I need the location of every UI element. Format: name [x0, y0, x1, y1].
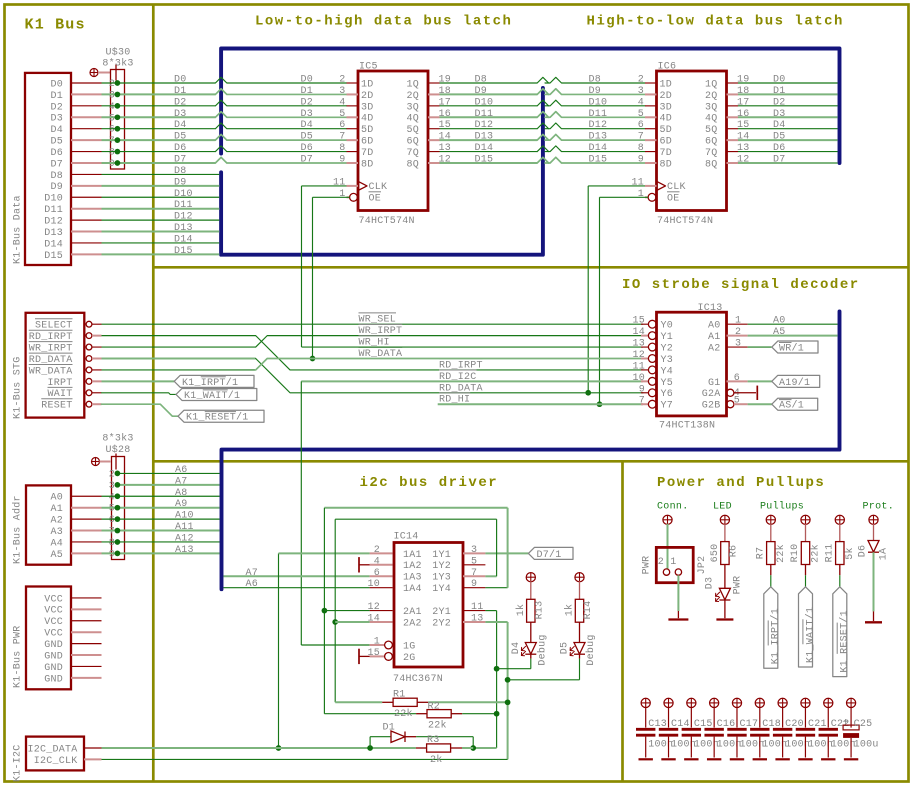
- wire RD_I2C down to IC14 1G: [301, 381, 369, 645]
- svg-text:14: 14: [737, 132, 750, 143]
- svg-text:15: 15: [632, 316, 645, 327]
- capacitor C13 100n: [636, 729, 655, 757]
- label net A0: [773, 316, 786, 327]
- svg-text:D13: D13: [44, 228, 63, 239]
- svg-text:D7/1: D7/1: [537, 549, 562, 561]
- label IC6: [658, 62, 677, 73]
- svg-text:D14: D14: [44, 239, 63, 250]
- wire SDA riser to 1A1: [279, 553, 370, 748]
- label 650 R6: [710, 544, 721, 563]
- svg-text:D11: D11: [589, 109, 608, 120]
- svg-text:IC6: IC6: [658, 62, 677, 73]
- label net D11: [174, 200, 193, 211]
- svg-text:D4: D4: [773, 120, 786, 131]
- svg-text:18: 18: [439, 86, 452, 97]
- svg-text:5: 5: [471, 556, 477, 567]
- wire D13 connector to bus: [102, 231, 220, 233]
- ground IC14 pin 1A2: [359, 557, 370, 572]
- svg-text:High-to-low data bus latch: High-to-low data bus latch: [587, 14, 844, 30]
- svg-text:G2B: G2B: [702, 401, 721, 412]
- svg-text:C25: C25: [854, 719, 873, 730]
- value 100n C15: [694, 740, 719, 751]
- svg-text:1A1: 1A1: [403, 550, 422, 561]
- wire RD_HI: [438, 403, 643, 405]
- power VCC C22: [824, 698, 833, 727]
- wire A12 to bus: [102, 541, 220, 543]
- svg-text:D8: D8: [589, 75, 602, 86]
- label K1-Bus PWR: [13, 625, 24, 688]
- bus data top loop: [221, 49, 839, 164]
- svg-text:RESET: RESET: [41, 401, 72, 412]
- label net D15: [174, 246, 193, 257]
- svg-text:1Y2: 1Y2: [432, 561, 451, 572]
- ground C22: [821, 758, 835, 760]
- junction 2A1: [322, 608, 328, 614]
- svg-text:D2: D2: [174, 97, 187, 108]
- svg-text:2: 2: [339, 75, 345, 86]
- svg-text:1A2: 1A2: [403, 561, 422, 572]
- svg-text:7: 7: [109, 136, 115, 147]
- label net A12: [175, 533, 194, 544]
- label R2: [428, 702, 441, 713]
- svg-text:2: 2: [638, 75, 644, 86]
- svg-text:8*3k3: 8*3k3: [102, 433, 133, 445]
- tag A19/1: [772, 375, 820, 388]
- power VCC C20: [778, 698, 787, 727]
- ground JP2: [668, 611, 688, 620]
- ground C18: [753, 758, 767, 760]
- IC5 left pins: [347, 83, 359, 163]
- wire D12 bus to IC6: [545, 123, 645, 129]
- power VCC symbol U$30: [90, 65, 116, 81]
- svg-text:7: 7: [339, 132, 345, 143]
- wire RD_DATA from STG: [102, 358, 644, 392]
- pin numbers U$30: [109, 79, 115, 170]
- value PWR D3: [733, 576, 744, 595]
- svg-text:VCC: VCC: [44, 594, 63, 605]
- svg-text:5: 5: [109, 113, 115, 124]
- wire D9 bus to IC6: [545, 89, 645, 95]
- svg-text:D10: D10: [44, 194, 63, 205]
- svg-text:8: 8: [638, 143, 644, 154]
- svg-text:D2: D2: [773, 97, 786, 108]
- svg-text:6: 6: [734, 373, 740, 384]
- svg-text:6D: 6D: [660, 137, 673, 148]
- tag K1_WAIT/1: [799, 587, 817, 667]
- label net D10 at IC5: [475, 97, 494, 108]
- svg-text:D9: D9: [589, 86, 602, 97]
- label U$30: [102, 47, 133, 70]
- IC14 pin names left: [403, 550, 422, 664]
- svg-text:IC5: IC5: [359, 62, 378, 73]
- svg-text:8Q: 8Q: [705, 159, 718, 170]
- IC13 left pins Y0-Y7: [641, 320, 656, 408]
- label net D13 at IC6: [589, 132, 608, 143]
- svg-text:PWR: PWR: [733, 576, 744, 595]
- svg-text:D6: D6: [174, 143, 187, 154]
- ground D3: [716, 611, 733, 620]
- label Conn.: [657, 502, 689, 513]
- value 74HCT574N IC5: [359, 216, 415, 227]
- power VCC C13: [641, 698, 650, 727]
- svg-text:IC13: IC13: [698, 303, 723, 314]
- svg-text:Y1: Y1: [661, 332, 674, 343]
- svg-text:A19/1: A19/1: [779, 377, 810, 389]
- svg-text:1A: 1A: [879, 548, 890, 561]
- svg-text:D14: D14: [174, 234, 193, 245]
- svg-text:RD_I2C: RD_I2C: [439, 372, 477, 383]
- pins K1-Bus PWR: [71, 598, 102, 678]
- svg-text:GND: GND: [44, 663, 63, 674]
- wire D4 IC6 to bus: [738, 128, 838, 130]
- led D4 Debug: [521, 622, 536, 669]
- divider power section: [621, 461, 624, 782]
- STG pin RD_DATA: [29, 353, 102, 366]
- STG pin IRPT: [47, 378, 101, 389]
- svg-text:2A2: 2A2: [403, 618, 422, 629]
- label R6: [729, 545, 740, 558]
- value 22k R10: [810, 544, 822, 563]
- svg-text:5: 5: [734, 396, 740, 407]
- resistor network U$28 8*3k3: [112, 457, 125, 560]
- pins K1-Bus Addr: [71, 496, 102, 553]
- svg-text:D11: D11: [174, 200, 193, 211]
- svg-text:6: 6: [109, 125, 115, 136]
- svg-text:9: 9: [639, 384, 645, 395]
- svg-text:i2c bus driver: i2c bus driver: [360, 475, 499, 491]
- label net D5 at IC6 output: [773, 132, 786, 143]
- op IC6 box 74HCT574N: [657, 71, 727, 211]
- label net D12 at IC6: [589, 120, 608, 131]
- svg-text:2D: 2D: [660, 91, 673, 102]
- IC13 left pin numbers: [632, 316, 645, 407]
- label IC14: [394, 532, 419, 543]
- junction SDA riser: [276, 745, 282, 751]
- resistor R7 22k: [767, 542, 775, 565]
- svg-text:D15: D15: [44, 251, 63, 262]
- svg-text:D5: D5: [560, 642, 571, 655]
- capacitor C21 100n: [796, 729, 815, 757]
- label net D12 at IC5: [475, 120, 494, 131]
- svg-text:D5: D5: [301, 132, 314, 143]
- label net RD_HI: [439, 393, 470, 406]
- svg-text:A7: A7: [246, 568, 259, 579]
- svg-text:Prot.: Prot.: [863, 502, 895, 513]
- svg-text:3: 3: [735, 339, 741, 350]
- svg-text:4: 4: [374, 556, 380, 567]
- junction D5 column: [505, 677, 511, 683]
- value 100n C13: [648, 740, 673, 751]
- svg-text:G2A: G2A: [702, 389, 721, 400]
- wire D15 IC5 to bus: [440, 157, 549, 163]
- svg-text:4: 4: [109, 492, 115, 503]
- svg-text:8: 8: [109, 538, 115, 549]
- svg-text:VCC: VCC: [44, 617, 63, 628]
- wire D11 connector to bus: [102, 208, 220, 210]
- svg-text:R6: R6: [729, 545, 740, 558]
- label U$28: [102, 433, 133, 456]
- svg-text:10: 10: [367, 579, 380, 590]
- power VCC C14: [664, 698, 673, 727]
- svg-text:1k: 1k: [515, 604, 527, 617]
- svg-text:D4: D4: [50, 125, 63, 136]
- svg-text:3D: 3D: [361, 102, 374, 113]
- svg-text:Y6: Y6: [661, 389, 674, 400]
- svg-text:D7: D7: [301, 155, 314, 166]
- svg-text:R11: R11: [824, 544, 835, 563]
- svg-text:A8: A8: [175, 488, 188, 499]
- label net A5: [773, 327, 786, 338]
- power VCC C21: [801, 698, 810, 727]
- svg-text:100n: 100n: [785, 740, 810, 751]
- label net A10: [175, 511, 194, 522]
- svg-text:7: 7: [109, 527, 115, 538]
- bus data lower loop: [221, 88, 543, 255]
- tag K1_RESET/1: [833, 587, 851, 677]
- label IC5: [359, 62, 378, 73]
- wire D8 connector to bus: [102, 173, 220, 175]
- svg-text:D15: D15: [174, 246, 193, 257]
- svg-text:A3: A3: [50, 527, 63, 538]
- capacitor C20 100n: [773, 729, 792, 757]
- wire IC5 OE to WR_DATA: [313, 197, 350, 358]
- wire 2A1 pin: [324, 610, 369, 612]
- resistor R13 1k: [527, 599, 535, 622]
- divider top section: [153, 266, 908, 269]
- svg-text:D0: D0: [773, 75, 786, 86]
- label K1-Bus STG: [13, 356, 24, 419]
- IC13 pin names Y0-Y7: [661, 321, 674, 412]
- connector K1-Bus PWR: [26, 587, 71, 690]
- svg-text:D3: D3: [174, 109, 187, 120]
- label net D8 at IC5: [475, 75, 488, 86]
- svg-text:K1_WAIT/1: K1_WAIT/1: [804, 607, 816, 663]
- power VCC C15: [687, 698, 696, 727]
- ground C14: [661, 758, 675, 760]
- svg-text:WR_DATA: WR_DATA: [359, 349, 403, 360]
- wire A13 to bus: [102, 552, 220, 554]
- wire D8 bus to IC6: [545, 77, 645, 83]
- label net A9: [175, 499, 188, 510]
- wire IC6 OE to RD_HI: [600, 197, 649, 404]
- wire A19/1: [748, 380, 772, 382]
- value 100n C22: [831, 740, 856, 751]
- svg-text:D8: D8: [174, 166, 187, 177]
- ground C20: [775, 758, 789, 760]
- op IC5 box 74HCT574N: [358, 71, 428, 211]
- svg-text:D5: D5: [50, 137, 63, 148]
- svg-text:100u: 100u: [854, 740, 879, 751]
- svg-text:3D: 3D: [660, 102, 673, 113]
- junction SDA at R3 right: [470, 745, 476, 751]
- value 100n C21: [808, 740, 833, 751]
- IC13 right pins: [727, 324, 748, 408]
- label net RD_I2C: [439, 370, 477, 383]
- svg-text:4D: 4D: [361, 114, 374, 125]
- label C18: [762, 719, 781, 730]
- svg-text:D10: D10: [589, 97, 608, 108]
- svg-text:D6: D6: [50, 148, 63, 159]
- svg-text:5D: 5D: [660, 125, 673, 136]
- svg-text:1A3: 1A3: [403, 573, 422, 584]
- label net A6: [175, 465, 188, 476]
- svg-text:D11: D11: [44, 205, 63, 216]
- label net D0 at IC6 output: [773, 75, 786, 86]
- svg-text:6Q: 6Q: [705, 137, 718, 148]
- wire A6 bus to IC14 1A4: [224, 587, 370, 589]
- svg-text:7: 7: [638, 132, 644, 143]
- label LED: [713, 502, 732, 513]
- svg-text:R14: R14: [583, 601, 594, 620]
- STG pin SELECT: [35, 319, 102, 332]
- svg-text:D15: D15: [475, 155, 494, 166]
- svg-text:Pullups: Pullups: [760, 501, 804, 513]
- svg-text:17: 17: [439, 97, 452, 108]
- svg-text:D11: D11: [475, 109, 494, 120]
- title High-to-low data bus latch: [587, 14, 844, 30]
- power VCC D6: [869, 515, 878, 540]
- svg-text:1Y4: 1Y4: [432, 584, 451, 595]
- svg-text:6D: 6D: [361, 137, 374, 148]
- svg-text:A11: A11: [175, 522, 194, 533]
- svg-text:A0: A0: [708, 321, 721, 332]
- label net WR_SEL: [359, 313, 397, 326]
- label R3: [427, 735, 440, 746]
- label net D14: [174, 234, 193, 245]
- value 100n C14: [671, 740, 696, 751]
- label C14: [671, 719, 690, 730]
- svg-text:D3: D3: [301, 109, 314, 120]
- svg-text:74HCT138N: 74HCT138N: [659, 421, 715, 432]
- svg-text:6: 6: [339, 120, 345, 131]
- IC14 right pin numbers: [471, 545, 484, 625]
- svg-text:100n: 100n: [831, 740, 856, 751]
- svg-text:D7: D7: [174, 155, 187, 166]
- svg-text:K1-Bus Addr: K1-Bus Addr: [12, 495, 24, 564]
- label net D3 at IC6 output: [773, 109, 786, 120]
- svg-text:2: 2: [109, 469, 115, 480]
- label Prot.: [863, 502, 895, 513]
- svg-text:650: 650: [710, 544, 721, 563]
- tag K1_IRPT/1: [764, 587, 782, 668]
- wire WR_DATA from STG: [102, 358, 644, 369]
- label net D2 at IC6 output: [773, 97, 786, 108]
- svg-text:D6: D6: [773, 143, 786, 154]
- svg-text:1Y1: 1Y1: [432, 550, 451, 561]
- svg-text:A1: A1: [708, 332, 721, 343]
- value 22k R2: [428, 720, 447, 732]
- value Debug D5: [585, 634, 597, 665]
- junction IC5 OE WR_DATA: [310, 356, 316, 362]
- value 1A D6: [879, 548, 890, 561]
- label net D4 at IC6 output: [773, 120, 786, 131]
- wire D15 connector to bus: [102, 253, 220, 255]
- IC5 pin CLK: [333, 177, 387, 193]
- svg-text:R10: R10: [790, 544, 801, 563]
- svg-text:1: 1: [374, 637, 380, 648]
- label 1k R14: [564, 604, 576, 617]
- svg-text:100n: 100n: [739, 740, 764, 751]
- svg-text:1D: 1D: [361, 79, 374, 90]
- svg-text:8D: 8D: [660, 159, 673, 170]
- label net D9: [174, 177, 187, 188]
- svg-text:Low-to-high data bus latch: Low-to-high data bus latch: [255, 14, 512, 30]
- svg-text:100n: 100n: [671, 740, 696, 751]
- svg-text:WR/1: WR/1: [779, 342, 804, 354]
- svg-text:D14: D14: [475, 143, 494, 154]
- wire IC5 CLK to WR_HI: [302, 186, 347, 347]
- wire WR_IRPT from STG: [102, 336, 644, 347]
- svg-text:15: 15: [367, 648, 380, 659]
- label R14: [583, 601, 594, 620]
- power VCC symbol U$28: [92, 454, 117, 470]
- label net A8: [175, 488, 188, 499]
- label net D7: [174, 155, 313, 166]
- svg-text:D3: D3: [705, 577, 716, 590]
- label K1-I2C: [13, 744, 24, 782]
- svg-text:19: 19: [737, 75, 750, 86]
- svg-text:12: 12: [632, 350, 645, 361]
- wire A11 to bus: [102, 530, 220, 532]
- wire D11 IC5 to bus: [440, 112, 549, 118]
- IC14 left pin numbers: [367, 545, 380, 659]
- svg-text:19: 19: [439, 75, 452, 86]
- capacitor C15 100n: [682, 729, 701, 757]
- IC6 pin CLK: [631, 177, 685, 193]
- wire WR_HI: [302, 346, 644, 348]
- svg-text:D4: D4: [511, 642, 522, 655]
- STG pin WR_DATA: [29, 365, 102, 378]
- svg-text:7D: 7D: [660, 148, 673, 159]
- value 22k R1: [394, 708, 413, 720]
- value 100n C16: [717, 740, 742, 751]
- resistor R10 22k: [801, 542, 809, 565]
- svg-text:1G: 1G: [403, 641, 416, 652]
- svg-text:74HCT574N: 74HCT574N: [657, 216, 713, 227]
- svg-text:D5: D5: [174, 132, 187, 143]
- svg-text:K1_WAIT/1: K1_WAIT/1: [184, 390, 240, 402]
- svg-text:D1: D1: [773, 86, 786, 97]
- svg-text:1: 1: [735, 316, 741, 327]
- svg-text:13: 13: [737, 143, 750, 154]
- svg-text:13: 13: [439, 143, 452, 154]
- svg-text:U$28: U$28: [105, 444, 130, 456]
- wire AS/1: [748, 403, 772, 405]
- value 100n C18: [762, 740, 787, 751]
- svg-text:3Q: 3Q: [406, 102, 419, 113]
- wire D11 bus to IC6: [545, 112, 645, 118]
- label D1: [383, 723, 396, 734]
- svg-text:5: 5: [109, 504, 115, 515]
- wire A5 to bus: [748, 335, 838, 337]
- svg-text:8: 8: [339, 143, 345, 154]
- label net D15 at IC5: [475, 155, 494, 166]
- junction IC6 CLK RD_DATA: [585, 390, 591, 396]
- svg-text:1: 1: [339, 189, 345, 200]
- title Low-to-high data bus latch: [255, 14, 512, 30]
- label C20: [785, 719, 804, 730]
- junction IC6 OE RD_HI: [597, 401, 603, 407]
- svg-text:Debug: Debug: [585, 634, 597, 665]
- svg-text:6Q: 6Q: [406, 137, 419, 148]
- svg-text:5D: 5D: [361, 125, 374, 136]
- value 2k R3: [430, 754, 443, 766]
- junction 2A2: [332, 619, 338, 625]
- wire D1 IC6 to bus: [738, 93, 838, 95]
- label net D10: [174, 189, 193, 200]
- label net D9 at IC5: [475, 86, 488, 97]
- svg-text:16: 16: [737, 109, 750, 120]
